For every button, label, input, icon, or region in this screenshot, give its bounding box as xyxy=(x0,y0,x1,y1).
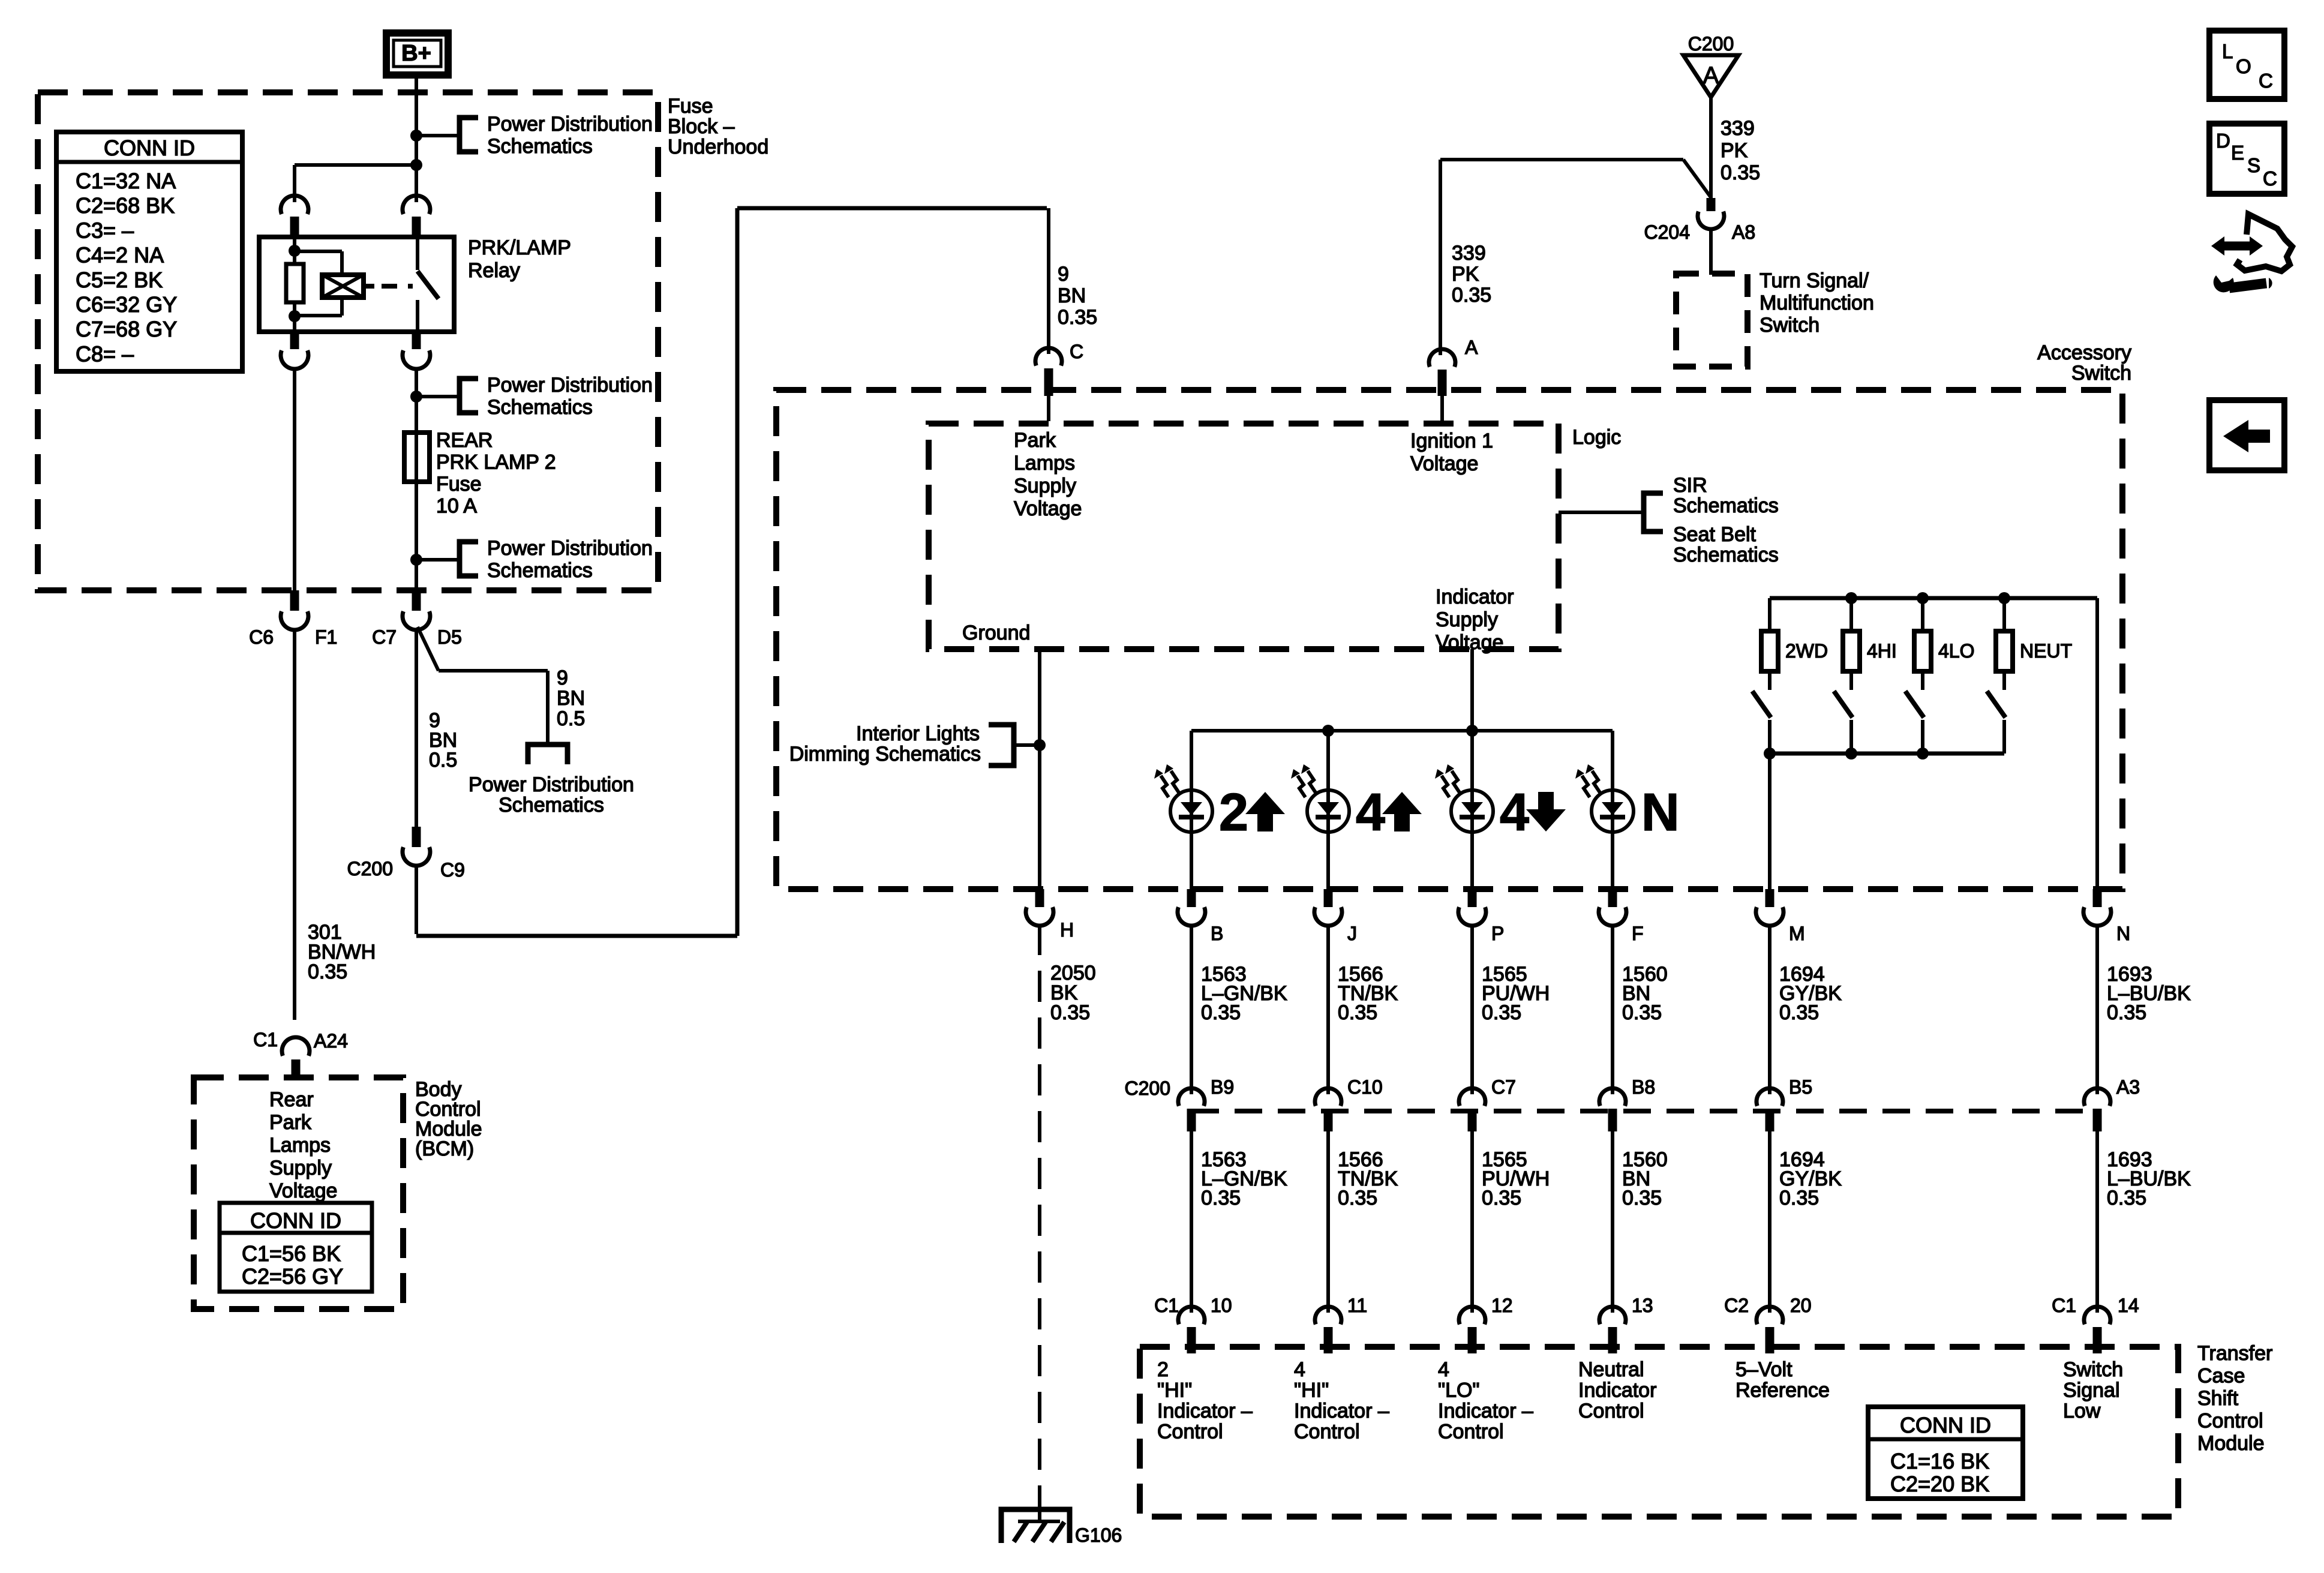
svg-text:339: 339 xyxy=(1721,117,1755,140)
svg-text:4HI: 4HI xyxy=(1867,640,1897,662)
svg-text:2WD: 2WD xyxy=(1785,640,1828,662)
wire C6 leg down xyxy=(293,367,296,590)
resistor 2WD xyxy=(1761,631,1778,671)
svg-text:"HI": "HI" xyxy=(1157,1379,1192,1402)
svg-text:Module: Module xyxy=(2197,1432,2265,1455)
svg-text:Park: Park xyxy=(1014,429,1056,452)
svg-text:BN: BN xyxy=(1058,284,1086,307)
svg-text:0.35: 0.35 xyxy=(1338,1001,1377,1024)
svg-text:4: 4 xyxy=(1438,1358,1449,1381)
relay coil resistor xyxy=(286,264,304,302)
svg-text:C5=2 BK: C5=2 BK xyxy=(76,268,163,292)
wire C into logic box xyxy=(1047,396,1050,421)
connector arc pin 20 xyxy=(1756,1307,1783,1324)
wire B to module xyxy=(1190,1131,1193,1313)
icon up arrow xyxy=(1382,792,1422,831)
pin stub relay switch top xyxy=(412,217,421,237)
connector arc pin 11 xyxy=(1315,1307,1341,1324)
svg-text:C6=32 GY: C6=32 GY xyxy=(76,292,177,317)
svg-text:Case: Case xyxy=(2197,1365,2245,1388)
svg-text:Supply: Supply xyxy=(269,1157,332,1179)
svg-text:P: P xyxy=(1491,923,1504,944)
svg-text:Interior Lights: Interior Lights xyxy=(856,722,980,745)
pin stub C10 xyxy=(1324,1109,1333,1131)
connector arc B9 xyxy=(1178,1088,1205,1106)
CONN ID table (transfer case) xyxy=(1868,1407,2023,1499)
connector triangle C200 A xyxy=(1683,55,1739,97)
svg-text:Low: Low xyxy=(2063,1400,2101,1422)
LED indicator J xyxy=(1307,790,1349,832)
svg-text:0.35: 0.35 xyxy=(1779,1187,1819,1209)
svg-text:B9: B9 xyxy=(1211,1076,1234,1098)
svg-text:C4=2 NA: C4=2 NA xyxy=(76,243,164,268)
icon DESC box xyxy=(2209,124,2284,194)
icon tool/arrow symbol xyxy=(2223,242,2252,251)
wire B to C200 xyxy=(1190,924,1193,1094)
icon down arrow xyxy=(1526,792,1566,831)
connector M cup xyxy=(1756,907,1783,926)
svg-text:0.35: 0.35 xyxy=(1050,1001,1090,1024)
svg-text:9: 9 xyxy=(1058,263,1069,286)
wire 301 BN/WH xyxy=(293,628,296,1020)
svg-text:C10: C10 xyxy=(1347,1076,1383,1098)
svg-text:2: 2 xyxy=(1219,782,1248,842)
svg-text:10 A: 10 A xyxy=(436,495,477,518)
svg-text:Control: Control xyxy=(2197,1410,2263,1433)
switch blade 4HI xyxy=(1834,691,1852,718)
svg-text:Voltage: Voltage xyxy=(269,1179,337,1202)
wire diagonal from D5 xyxy=(418,627,439,671)
connector arc relay coil bottom xyxy=(281,350,308,369)
wire to 2WD resistor xyxy=(1768,598,1771,631)
wire 339 PK from C200 xyxy=(1709,97,1713,198)
svg-text:4: 4 xyxy=(1356,782,1385,842)
svg-text:4: 4 xyxy=(1500,782,1529,842)
svg-text:"HI": "HI" xyxy=(1294,1379,1329,1402)
svg-text:"LO": "LO" xyxy=(1438,1379,1480,1402)
svg-text:A: A xyxy=(1465,337,1478,358)
wire LED branch J xyxy=(1326,731,1330,889)
svg-text:0.35: 0.35 xyxy=(1482,1187,1521,1209)
connector B cup xyxy=(1178,907,1205,926)
wire 9 BN 0.5 main xyxy=(415,628,418,827)
svg-text:5–Volt: 5–Volt xyxy=(1736,1358,1792,1381)
svg-text:Seat Belt: Seat Belt xyxy=(1673,523,1756,546)
wire P to module xyxy=(1470,1131,1474,1313)
wire N to C200 row xyxy=(2095,924,2099,1094)
goes-to Power Distribution (down) xyxy=(546,671,550,745)
connector arc C xyxy=(1035,348,1062,365)
pin stub C xyxy=(1044,368,1053,396)
junction coil top xyxy=(289,245,301,257)
svg-text:11: 11 xyxy=(1347,1295,1367,1316)
svg-text:Voltage: Voltage xyxy=(1410,452,1478,475)
wire drop to C xyxy=(1047,208,1050,354)
junction top bus xyxy=(1917,592,1929,604)
wire LED bus xyxy=(1191,729,1613,733)
svg-text:C: C xyxy=(2263,167,2277,190)
icon back arrow box xyxy=(2209,400,2284,470)
svg-text:Fuse: Fuse xyxy=(436,473,482,496)
svg-text:Power Distribution: Power Distribution xyxy=(469,773,634,796)
wire M down xyxy=(1768,754,1771,889)
relay switch lower contact xyxy=(416,300,419,332)
wire 339 PK diagonal xyxy=(1683,160,1711,197)
svg-text:0.35: 0.35 xyxy=(308,960,347,983)
svg-text:C200: C200 xyxy=(347,858,394,879)
relay winding box with X xyxy=(322,275,364,298)
connector arc pin 14 xyxy=(2084,1307,2110,1324)
svg-text:F1: F1 xyxy=(315,626,337,648)
pin stub C9 xyxy=(412,827,421,847)
wire to NEUT resistor xyxy=(2002,598,2006,631)
svg-text:0.5: 0.5 xyxy=(429,749,457,772)
pin stub B xyxy=(1187,889,1196,907)
wire branch horizontal xyxy=(439,669,548,673)
pin stub 13 xyxy=(1608,1327,1617,1353)
svg-text:0.35: 0.35 xyxy=(2107,1187,2146,1209)
connector arc A xyxy=(1429,349,1455,367)
svg-text:C8= –: C8= – xyxy=(76,341,134,366)
svg-text:Indicator –: Indicator – xyxy=(1157,1400,1253,1422)
svg-text:Reference: Reference xyxy=(1736,1379,1830,1402)
wire A8 to switch xyxy=(1709,228,1713,275)
svg-text:Supply: Supply xyxy=(1436,608,1498,631)
svg-text:A3: A3 xyxy=(2116,1076,2140,1098)
svg-text:Park: Park xyxy=(269,1111,312,1134)
pin stub M xyxy=(1765,889,1774,907)
pin stub B8 xyxy=(1608,1109,1617,1131)
svg-text:A: A xyxy=(1703,62,1719,89)
wire SIR tap xyxy=(1559,511,1644,514)
Fuse Block - Underhood dashed box xyxy=(38,92,658,590)
B+ battery terminal box xyxy=(386,33,448,75)
svg-text:Control: Control xyxy=(1294,1421,1360,1443)
junction top bus xyxy=(1998,592,2010,604)
wire F to C200 xyxy=(1611,924,1614,1094)
wire 339 PK horizontal xyxy=(1440,158,1683,161)
wire coil leg bottom xyxy=(293,302,296,332)
svg-text:339: 339 xyxy=(1452,242,1486,265)
relay switch blade xyxy=(418,271,439,299)
wire coil to winding top xyxy=(295,250,342,253)
svg-text:Control: Control xyxy=(1157,1421,1223,1443)
pin stub 12 xyxy=(1468,1327,1477,1353)
wire switch top bus xyxy=(1770,596,2097,601)
junction LED bus J xyxy=(1322,725,1334,737)
wire 4LO to switch xyxy=(1921,671,1924,690)
connector arc pin 12 xyxy=(1459,1307,1485,1324)
pin stub C7 xyxy=(412,590,421,611)
svg-text:Signal: Signal xyxy=(2063,1379,2120,1402)
wire switch bottom bus xyxy=(1770,752,2004,756)
Body Control Module dashed box xyxy=(194,1077,403,1309)
connector arc relay coil top xyxy=(281,196,308,214)
connector C7 D5 cup xyxy=(403,611,430,630)
svg-text:C1=32 NA: C1=32 NA xyxy=(76,169,176,193)
wire 2WD switch bottom xyxy=(1768,720,1771,754)
svg-text:Accessory: Accessory xyxy=(2037,341,2131,364)
wire dashed to G106 xyxy=(1038,924,1041,1507)
pin stub C6 xyxy=(290,590,299,611)
svg-text:Voltage: Voltage xyxy=(1014,497,1082,520)
junction interior lights xyxy=(1034,739,1046,751)
svg-text:Lamps: Lamps xyxy=(269,1134,331,1157)
svg-text:NEUT: NEUT xyxy=(2020,640,2072,662)
wire 4LO switch bottom xyxy=(1921,720,1924,754)
wire interior lights tap xyxy=(1014,743,1040,747)
fuse REAR PRK LAMP 2 10A xyxy=(404,433,430,482)
wire 339 PK down to A xyxy=(1439,160,1442,355)
svg-text:Power Distribution: Power Distribution xyxy=(487,113,653,136)
svg-text:Switch: Switch xyxy=(2063,1358,2123,1381)
connector arc B5 xyxy=(1756,1088,1783,1106)
svg-text:C204: C204 xyxy=(1644,221,1691,243)
wire A into logic box xyxy=(1440,396,1444,421)
svg-text:Switch: Switch xyxy=(2071,362,2131,385)
connector H cup xyxy=(1026,907,1053,926)
svg-text:C2=68 BK: C2=68 BK xyxy=(76,193,175,218)
svg-text:Multifunction: Multifunction xyxy=(1759,292,1874,314)
pin stub A24 xyxy=(292,1059,301,1080)
connector arc pin 10 xyxy=(1178,1307,1205,1324)
svg-text:Dimming Schematics: Dimming Schematics xyxy=(789,743,981,766)
svg-text:Turn Signal/: Turn Signal/ xyxy=(1759,269,1869,292)
wire to 4HI resistor xyxy=(1849,598,1853,631)
svg-text:C1: C1 xyxy=(1154,1295,1179,1316)
CONN ID table (BCM) xyxy=(220,1203,372,1292)
svg-text:C: C xyxy=(1070,341,1083,362)
svg-text:Control: Control xyxy=(1438,1421,1504,1443)
svg-text:D: D xyxy=(2216,130,2230,152)
wire winding drop xyxy=(340,251,344,275)
pin stub F xyxy=(1608,889,1617,907)
pin stub N xyxy=(2093,889,2102,907)
svg-text:REAR: REAR xyxy=(436,429,493,452)
svg-text:N: N xyxy=(1641,782,1680,842)
svg-text:C3= –: C3= – xyxy=(76,218,134,242)
svg-text:Power Distribution: Power Distribution xyxy=(487,374,653,397)
svg-text:B+: B+ xyxy=(401,41,431,66)
wire to tap 3 xyxy=(416,558,460,562)
svg-text:0.35: 0.35 xyxy=(1721,161,1760,184)
pin stub relay switch bottom xyxy=(412,332,421,349)
connector C6 F1 cup xyxy=(281,611,308,630)
svg-text:Schematics: Schematics xyxy=(499,794,604,816)
svg-text:Schematics: Schematics xyxy=(487,396,593,419)
svg-text:Indicator: Indicator xyxy=(1578,1379,1656,1402)
junction LED bus P xyxy=(1466,725,1478,737)
wire 2WD to switch xyxy=(1768,671,1771,690)
actuator dashed link xyxy=(382,284,413,289)
svg-text:0.35: 0.35 xyxy=(1201,1187,1241,1209)
pin stub 20 xyxy=(1765,1327,1774,1353)
connector C200 C9 cup xyxy=(403,847,430,866)
svg-text:0.35: 0.35 xyxy=(1201,1001,1241,1024)
svg-text:Ignition 1: Ignition 1 xyxy=(1410,430,1493,452)
wire winding to coil bottom xyxy=(295,314,342,317)
svg-text:Transfer: Transfer xyxy=(2197,1342,2272,1365)
switch blade 4LO xyxy=(1905,691,1924,718)
svg-text:B5: B5 xyxy=(1789,1076,1812,1098)
svg-text:0.35: 0.35 xyxy=(1622,1001,1662,1024)
svg-text:CONN ID: CONN ID xyxy=(250,1208,341,1233)
svg-text:0.35: 0.35 xyxy=(2107,1001,2146,1024)
icon LOC box xyxy=(2209,31,2284,99)
pin stub 10 xyxy=(1187,1327,1196,1353)
junction top bus xyxy=(1845,592,1857,604)
svg-text:10: 10 xyxy=(1211,1295,1232,1316)
actuator stub xyxy=(364,284,374,289)
LED indicator F xyxy=(1592,790,1634,832)
svg-text:C1: C1 xyxy=(2052,1295,2076,1316)
svg-text:C9: C9 xyxy=(440,859,465,881)
svg-text:PK: PK xyxy=(1452,263,1479,286)
Accessory Switch dashed box xyxy=(776,390,2122,889)
wire to tap 2 xyxy=(416,395,460,398)
wire F to module xyxy=(1611,1131,1614,1313)
CONN ID table (fuse block) xyxy=(56,132,242,371)
icon up arrow xyxy=(1245,792,1285,831)
bracket Interior Lights xyxy=(989,725,1014,766)
svg-text:C1=56 BK: C1=56 BK xyxy=(242,1241,341,1266)
svg-text:CONN ID: CONN ID xyxy=(104,136,195,160)
svg-text:G106: G106 xyxy=(1075,1524,1122,1546)
connector arc relay switch bottom xyxy=(403,350,430,369)
svg-text:0.35: 0.35 xyxy=(1622,1187,1662,1209)
svg-text:(BCM): (BCM) xyxy=(415,1137,474,1160)
connector arc A3 xyxy=(2084,1088,2110,1106)
svg-text:Underhood: Underhood xyxy=(668,136,768,158)
svg-text:12: 12 xyxy=(1491,1295,1513,1316)
pin stub 14 xyxy=(2093,1327,2102,1353)
svg-text:0.35: 0.35 xyxy=(1452,284,1491,307)
resistor NEUT xyxy=(1996,631,2013,671)
svg-text:Control: Control xyxy=(1578,1400,1644,1422)
pin stub A3 xyxy=(2093,1109,2102,1131)
svg-text:Indicator –: Indicator – xyxy=(1294,1400,1389,1422)
wire N to module xyxy=(2095,1131,2099,1313)
wire J to module xyxy=(1326,1131,1330,1313)
svg-text:14: 14 xyxy=(2118,1295,2139,1316)
svg-text:9: 9 xyxy=(557,667,568,689)
wire J to C200 xyxy=(1326,924,1330,1094)
svg-text:D5: D5 xyxy=(437,626,462,648)
pin stub B5 xyxy=(1765,1109,1774,1131)
svg-text:20: 20 xyxy=(1790,1295,1812,1316)
wire LED branch P xyxy=(1470,731,1474,889)
svg-text:Logic: Logic xyxy=(1572,426,1621,449)
connector arc pin 13 xyxy=(1599,1307,1626,1324)
svg-text:L: L xyxy=(2222,40,2233,62)
connector arc C7 xyxy=(1459,1088,1485,1106)
svg-text:C1=16 BK: C1=16 BK xyxy=(1890,1449,1989,1473)
svg-text:Shift: Shift xyxy=(2197,1387,2239,1410)
svg-text:Relay: Relay xyxy=(468,259,520,282)
wire branch to relay coil xyxy=(295,163,416,167)
svg-text:PK: PK xyxy=(1721,139,1748,162)
resistor 4HI xyxy=(1843,631,1860,671)
junction PDS tap 2 xyxy=(410,391,422,403)
svg-text:O: O xyxy=(2236,55,2251,77)
wire B+ down xyxy=(415,76,418,202)
svg-text:C7: C7 xyxy=(1491,1076,1516,1098)
svg-text:C: C xyxy=(2259,70,2273,92)
svg-text:Schematics: Schematics xyxy=(1673,544,1779,566)
connector P cup xyxy=(1458,907,1486,926)
svg-text:Power Distribution: Power Distribution xyxy=(487,537,653,560)
connector N cup xyxy=(2083,907,2111,926)
wire loop top xyxy=(737,206,1047,211)
wire C9 down xyxy=(415,864,418,934)
svg-text:E: E xyxy=(2231,142,2244,164)
svg-text:2: 2 xyxy=(1157,1358,1169,1381)
junction bottom bus 2 xyxy=(1845,748,1857,760)
svg-text:Schematics: Schematics xyxy=(487,135,593,158)
pin stub C7 xyxy=(1468,1109,1477,1131)
wire P to C200 xyxy=(1470,924,1474,1094)
svg-text:Ground: Ground xyxy=(962,622,1030,644)
svg-text:Supply: Supply xyxy=(1014,475,1076,497)
pin stub A xyxy=(1438,370,1447,396)
wire to tap 1 xyxy=(416,134,460,137)
svg-text:BN: BN xyxy=(557,687,585,710)
pin stub relay coil bottom xyxy=(290,332,299,349)
svg-text:CONN ID: CONN ID xyxy=(1900,1413,1991,1437)
svg-text:F: F xyxy=(1632,923,1644,944)
svg-text:A24: A24 xyxy=(314,1030,348,1052)
wire M to module xyxy=(1768,1131,1771,1313)
bracket SIR/Seat Belt xyxy=(1644,493,1663,532)
svg-text:Indicator –: Indicator – xyxy=(1438,1400,1533,1422)
svg-text:B8: B8 xyxy=(1632,1076,1655,1098)
connector C1 A24 arc xyxy=(282,1037,310,1056)
tap bracket Power Distribution 2 xyxy=(460,379,478,413)
svg-text:Rear: Rear xyxy=(269,1088,314,1111)
svg-text:0.35: 0.35 xyxy=(1482,1001,1521,1024)
wire M to C200 row xyxy=(1768,924,1771,1094)
svg-text:C2=20 BK: C2=20 BK xyxy=(1890,1472,1989,1496)
pin stub P xyxy=(1468,889,1477,907)
svg-text:H: H xyxy=(1060,919,1074,941)
svg-text:0.35: 0.35 xyxy=(1779,1001,1819,1024)
svg-text:C1: C1 xyxy=(253,1029,278,1050)
wire NEUT switch bottom xyxy=(2002,720,2006,754)
svg-text:A8: A8 xyxy=(1732,221,1755,243)
wire winding bottom xyxy=(340,298,344,316)
wire 4HI to switch xyxy=(1849,671,1853,690)
svg-text:J: J xyxy=(1347,923,1357,944)
relay switch upper contact xyxy=(416,237,419,270)
tap bracket Power Distribution 1 xyxy=(460,118,478,152)
svg-text:C200: C200 xyxy=(1688,33,1734,55)
junction bottom bus M xyxy=(1764,748,1776,760)
svg-text:0.5: 0.5 xyxy=(557,707,585,730)
svg-text:S: S xyxy=(2247,154,2260,176)
svg-text:4: 4 xyxy=(1294,1358,1305,1381)
connector arc C10 xyxy=(1315,1088,1341,1106)
svg-text:Fuse: Fuse xyxy=(668,95,713,118)
svg-text:0.35: 0.35 xyxy=(1338,1187,1377,1209)
svg-text:Block –: Block – xyxy=(668,115,735,138)
connector arc B8 xyxy=(1599,1088,1626,1106)
svg-text:Neutral: Neutral xyxy=(1578,1358,1644,1381)
wire N down xyxy=(2095,598,2099,889)
wire coil leg xyxy=(293,237,296,264)
svg-text:C2: C2 xyxy=(1724,1295,1749,1316)
pin stub H xyxy=(1035,889,1044,907)
wire 4HI switch bottom xyxy=(1849,720,1853,754)
